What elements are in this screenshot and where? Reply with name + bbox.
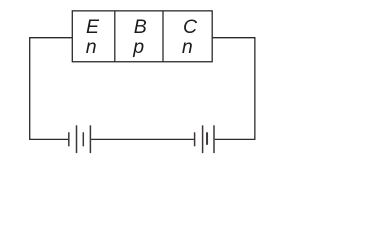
battery B1 tall plate 1 bbox=[76, 125, 78, 153]
divider B/C bbox=[162, 11, 164, 62]
svg-text:C: C bbox=[183, 16, 198, 38]
battery B2 short plate 1 bbox=[194, 132, 196, 146]
svg-text:n: n bbox=[86, 36, 97, 58]
svg-text:E: E bbox=[86, 16, 100, 38]
battery B2 tall plate 1 bbox=[202, 125, 204, 153]
svg-text:p: p bbox=[132, 36, 144, 58]
battery B2 short plate 2 bbox=[206, 132, 208, 145]
battery B1 short plate 1 bbox=[68, 132, 70, 146]
battery B1 tall plate 2 bbox=[89, 125, 91, 153]
svg-text:B: B bbox=[134, 16, 147, 38]
wire emitter to left battery bbox=[30, 38, 73, 140]
battery B1 short plate 2 bbox=[82, 132, 84, 146]
svg-text:n: n bbox=[182, 36, 193, 58]
wire between batteries bbox=[91, 138, 194, 140]
battery B2 tall plate 2 bbox=[213, 125, 215, 153]
transistor body outline bbox=[72, 11, 212, 62]
wire right battery to collector bbox=[212, 38, 255, 140]
divider E/B bbox=[114, 11, 116, 62]
